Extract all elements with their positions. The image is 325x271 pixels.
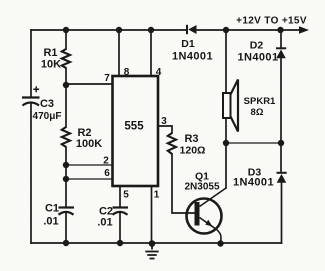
resistor R3 <box>168 133 176 154</box>
diode D3 <box>277 173 287 183</box>
node C2 ground <box>117 240 123 246</box>
svg-text:D1: D1 <box>181 38 195 50</box>
node top pin4 <box>148 27 154 33</box>
node top D2 <box>277 27 283 33</box>
svg-text:10K: 10K <box>41 59 61 71</box>
node pin2 <box>63 162 69 168</box>
svg-text:470μF: 470μF <box>33 111 62 122</box>
op-amp U1 555 timer box <box>113 76 159 186</box>
wire pin7 to R1/R2 junction <box>66 83 113 85</box>
node collector speaker D3 <box>223 140 229 146</box>
capacitor C1 <box>59 208 75 215</box>
diode D1 <box>187 25 197 34</box>
svg-text:1: 1 <box>154 190 160 201</box>
wire left rail lower (C3 to bottom) <box>30 104 32 243</box>
wire speaker bottom to node <box>225 118 227 143</box>
wire D3 bottom to ground rail <box>281 182 283 243</box>
node pin6 <box>63 176 69 182</box>
svg-text:R1: R1 <box>43 47 57 59</box>
node top pin8 <box>116 27 122 33</box>
svg-text:2N3055: 2N3055 <box>184 182 219 193</box>
wire pin2 node to pin6 node <box>65 165 67 179</box>
wire bottom ground rail <box>31 242 282 244</box>
speaker SPKR1 <box>223 80 238 132</box>
wire speaker branch top <box>225 30 227 93</box>
svg-text:7: 7 <box>104 73 110 84</box>
wire R1 bottom to junction <box>65 68 67 85</box>
svg-text:5: 5 <box>123 190 129 201</box>
capacitor C2 <box>113 208 129 215</box>
wire pin1 down to ground <box>151 186 153 243</box>
capacitor C3 <box>22 86 40 105</box>
wire pin4 vertical <box>150 30 152 76</box>
wire pin6 node down to C1 <box>65 179 67 207</box>
node C1 ground <box>63 240 69 246</box>
diode D2 <box>276 48 286 58</box>
svg-text:1N4001: 1N4001 <box>172 51 213 63</box>
svg-text:2: 2 <box>103 156 109 167</box>
resistor R1 <box>62 49 70 68</box>
svg-text:+12V TO +15V: +12V TO +15V <box>236 16 307 27</box>
svg-text:.01: .01 <box>43 216 58 228</box>
wire node to D3 branch horizontal <box>226 142 281 144</box>
supply arrow head <box>299 26 309 34</box>
node R1 R2 pin7 <box>63 82 69 88</box>
wire C2 bottom to ground rail <box>119 212 121 243</box>
svg-text:4: 4 <box>156 67 162 78</box>
svg-text:8: 8 <box>124 67 130 78</box>
wire pin6 horizontal <box>66 178 113 180</box>
svg-text:100K: 100K <box>76 138 102 150</box>
svg-text:D2: D2 <box>250 40 264 52</box>
svg-text:8Ω: 8Ω <box>251 107 264 118</box>
ground <box>145 246 158 259</box>
node D3 top <box>278 140 284 146</box>
wire D2 branch top <box>280 30 282 48</box>
wire D3 node to D3 <box>280 143 282 172</box>
wire top rail right segment to supply arrow <box>197 29 302 31</box>
svg-text:.01: .01 <box>97 217 112 229</box>
wire top rail left segment <box>31 29 186 31</box>
wire R1 branch top <box>65 30 67 49</box>
wire D2 to D3 node <box>280 59 282 144</box>
wire R2 bottom to pin2 node <box>65 147 67 165</box>
wire pin2 horizontal <box>66 164 113 166</box>
transistor Q1 <box>187 188 227 243</box>
svg-text:1N4001: 1N4001 <box>233 177 274 189</box>
svg-text:C3: C3 <box>40 98 54 110</box>
wire R3 bottom to base <box>172 154 195 213</box>
node ground symbol <box>149 240 156 247</box>
svg-text:3: 3 <box>161 116 167 127</box>
resistor R2 <box>62 127 70 147</box>
svg-text:1N4001: 1N4001 <box>238 52 279 64</box>
svg-text:SPKR1: SPKR1 <box>244 96 276 107</box>
svg-text:R3: R3 <box>184 133 198 145</box>
svg-text:555: 555 <box>124 121 144 133</box>
node top speaker <box>223 27 229 33</box>
wire pin5 down to C2 <box>119 186 121 207</box>
wire pin8 vertical <box>118 30 120 76</box>
node emitter ground <box>217 240 223 246</box>
svg-text:120Ω: 120Ω <box>180 145 206 157</box>
svg-text:C1: C1 <box>45 203 59 215</box>
wire collector vertical <box>225 143 227 188</box>
node top R1 <box>63 27 69 33</box>
wire R2 top <box>65 85 67 127</box>
wire C1 bottom to ground rail <box>65 212 67 243</box>
wire pin3 to R3 <box>158 126 172 133</box>
wire left rail upper (to C3) <box>30 30 32 97</box>
svg-text:6: 6 <box>104 168 110 179</box>
